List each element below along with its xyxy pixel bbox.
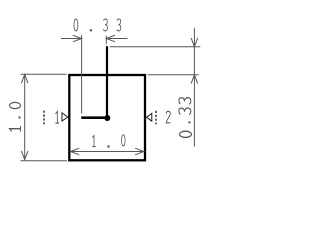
pin 1 number label (55, 111, 59, 123)
dimension 0.33 top: extension line A (81, 35, 83, 114)
dimension 0.33 right: dim line with outside arrows (191, 28, 198, 147)
dimension 0.33 right: extension line (pin top) (110, 46, 201, 48)
dimension 1.0 left: extension line bottom (21, 160, 68, 162)
dimension 1.0 bottom: text "1.0" (92, 135, 125, 148)
pin 1 name text (tiny) (43, 111, 45, 125)
dimension 0.33 right: extension line (body top) (148, 74, 199, 76)
symbol body outline U1 (69, 75, 145, 160)
dimension 0.33 top: text "0.33" (74, 19, 121, 32)
pin 2 name text (tiny) (155, 111, 157, 124)
junction dot (104, 115, 110, 121)
wire: pin 1 vertical lead (106, 46, 108, 118)
dimension 0.33 top: extension line B (105, 36, 107, 45)
dimension 0.33 top: right dim line with arrow (106, 35, 127, 42)
dimension 1.0 left: dim line with arrows (21, 74, 28, 159)
pin 2 marker triangle (147, 113, 152, 121)
wire: pin 1 horizontal segment (81, 116, 107, 119)
dimension 1.0 left: text "1.0" rotated (10, 102, 21, 131)
dimension 1.0 bottom: dim line with outward arrows (70, 148, 143, 155)
pin 1 marker triangle (62, 113, 68, 121)
pin 2 number label (166, 111, 170, 123)
dimension 0.33 top: left dim line with arrow (61, 35, 82, 42)
dimension 1.0 left: extension line top (21, 73, 67, 75)
dimension 0.33 right: text "0.33" rotated (179, 98, 192, 138)
